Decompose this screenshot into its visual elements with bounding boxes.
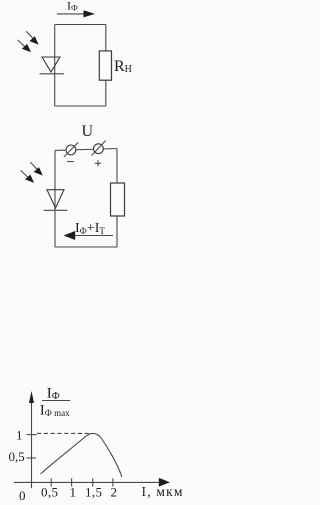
svg-text:0: 0 xyxy=(19,488,26,503)
svg-text:RН: RН xyxy=(114,58,132,75)
tick x=1.5 xyxy=(92,478,94,486)
svg-text:1: 1 xyxy=(70,484,77,499)
tick x=1 xyxy=(71,478,73,486)
tick x=2 xyxy=(112,478,114,486)
current arrow IF+IT xyxy=(64,231,114,240)
fraction bar xyxy=(42,400,70,402)
svg-text:I, мкм: I, мкм xyxy=(142,484,184,499)
tick y=1 xyxy=(27,434,37,436)
spectral response curve xyxy=(41,433,123,477)
y axis xyxy=(29,391,34,488)
current arrow IF (top circuit) xyxy=(57,10,95,17)
label plus xyxy=(95,160,101,166)
light arrow 2 (middle) xyxy=(21,170,34,183)
wire right upper (top circuit) xyxy=(105,25,107,52)
wire left (top circuit) xyxy=(54,25,56,107)
svg-text:2: 2 xyxy=(111,484,118,499)
photodiode VD2 xyxy=(44,190,68,211)
wire top (top circuit) xyxy=(55,24,106,26)
light arrow 1 (top) xyxy=(26,31,38,44)
light arrow 2 (top) xyxy=(18,40,31,52)
x axis xyxy=(14,478,170,487)
wire bottom (top circuit) xyxy=(55,105,106,107)
svg-text:IФ: IФ xyxy=(67,0,78,13)
svg-text:0,5: 0,5 xyxy=(41,484,58,499)
svg-text:1: 1 xyxy=(16,427,23,442)
dashed level line xyxy=(37,432,89,434)
wire right (middle circuit) xyxy=(116,149,118,248)
terminal left xyxy=(64,142,78,157)
wire top (middle circuit) xyxy=(55,149,117,151)
resistor RH xyxy=(99,51,111,80)
resistor load (middle circuit) xyxy=(111,183,125,216)
tick x=0.5 xyxy=(50,478,52,486)
svg-text:IФ+IТ: IФ+IТ xyxy=(75,221,105,236)
wire right lower (top circuit) xyxy=(105,80,107,106)
svg-text:IФ: IФ xyxy=(47,385,60,402)
terminal right xyxy=(92,141,106,156)
wire left (middle circuit) xyxy=(54,150,56,247)
svg-text:IФ max: IФ max xyxy=(40,402,70,418)
svg-text:1,5: 1,5 xyxy=(85,484,102,499)
svg-text:U: U xyxy=(82,123,94,140)
tick y=0.5 xyxy=(27,457,37,459)
light arrow 1 (middle) xyxy=(30,162,42,175)
svg-text:0,5: 0,5 xyxy=(9,449,25,464)
label minus xyxy=(67,161,74,163)
photodiode VD1 xyxy=(40,57,65,74)
wire bottom (middle circuit) xyxy=(55,246,117,248)
